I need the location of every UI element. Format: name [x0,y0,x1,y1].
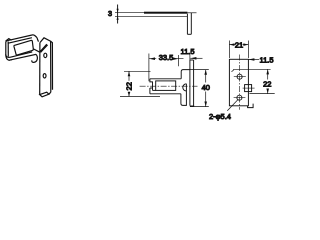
svg-text:22: 22 [125,82,134,90]
svg-text:11.5: 11.5 [260,55,274,64]
svg-text:22: 22 [263,80,271,89]
svg-text:2-φ5.4: 2-φ5.4 [209,112,231,121]
svg-text:3: 3 [108,9,112,18]
svg-text:11.5: 11.5 [180,47,194,56]
svg-text:40: 40 [202,83,210,92]
svg-text:21: 21 [235,41,243,50]
svg-text:33.5: 33.5 [159,53,174,62]
